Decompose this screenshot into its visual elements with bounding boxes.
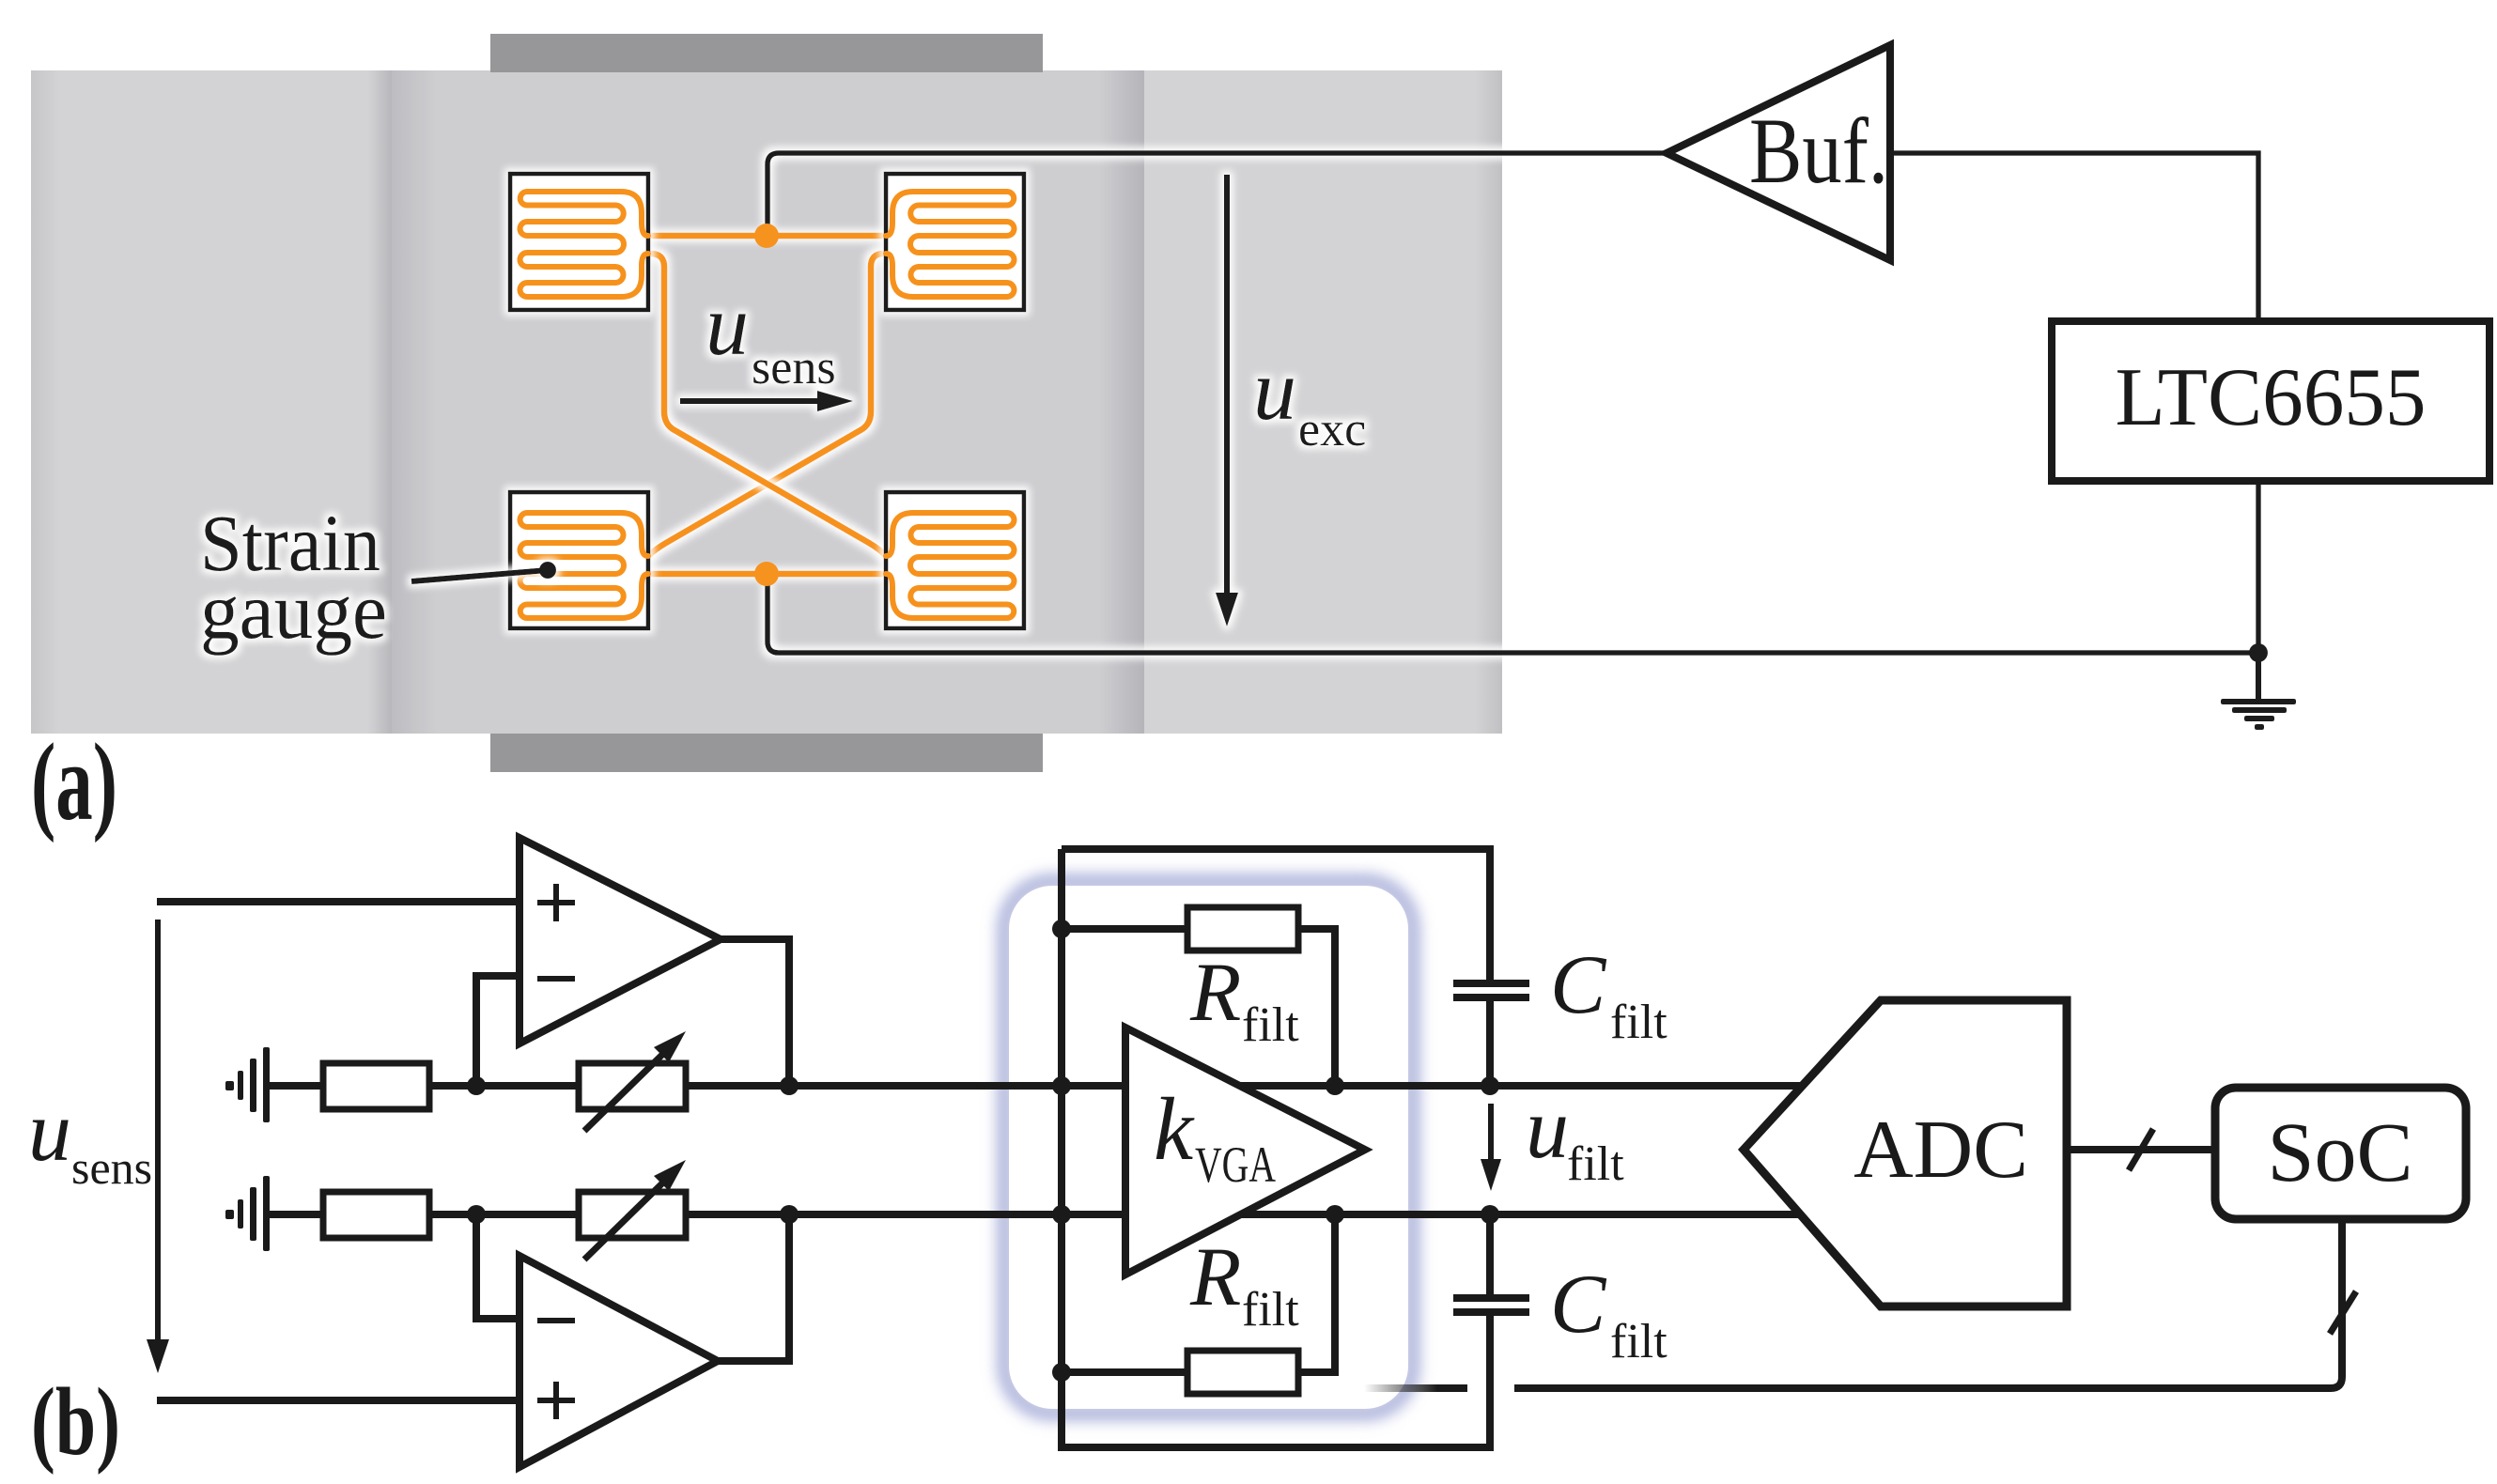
- ground (rail 2 bias): [225, 1176, 270, 1251]
- svg-text:SoC: SoC: [2267, 1106, 2412, 1199]
- wire R_filt top connections: [1062, 929, 1335, 1086]
- svg-text:filt: filt: [1242, 1283, 1299, 1337]
- pin + of op-amp U6: [537, 884, 575, 921]
- svg-text:Buf.: Buf.: [1749, 99, 1888, 203]
- junction at R_filt top left tap: [1052, 920, 1071, 938]
- svg-text:R: R: [1189, 1231, 1241, 1323]
- svg-text:k: k: [1154, 1079, 1195, 1179]
- ADC converter U3: [1744, 1000, 2067, 1306]
- wire top junction to Buf: [768, 153, 1667, 236]
- beam body: [31, 70, 1502, 734]
- filter loop outer rectangle: [1062, 849, 1490, 982]
- wire R_filt bottom connections: [1062, 1214, 1335, 1372]
- junction on rail 2 at C_filt: [1481, 1205, 1499, 1224]
- bridge wiring (orange, with white halo): [648, 236, 886, 574]
- wire cross NW-SE (over): [648, 254, 886, 556]
- wire SoC to VGA gain control: [1514, 1219, 2342, 1388]
- beam right edge shade: [1475, 70, 1502, 734]
- VGA highlight box: [1005, 882, 1412, 1413]
- op-amp U6 (non-inverting buffer, top): [520, 838, 721, 1043]
- junction on rail 1 at filter loop left: [1052, 1076, 1071, 1095]
- adjustment arrow of VR2: [584, 1177, 669, 1260]
- wire ADC to SoC (digital bus): [2067, 1146, 2215, 1153]
- wire u_sens+ input to op-amp 1: [157, 898, 523, 905]
- junction on rail 1 at op-amp 1 output: [780, 1076, 799, 1095]
- svg-text:gauge: gauge: [200, 565, 387, 656]
- variable resistor VR2: [579, 1192, 686, 1238]
- beam seam 1: [368, 70, 392, 734]
- voltage reference U5 LTC6655: [2052, 321, 2489, 481]
- svg-text:R: R: [1189, 947, 1241, 1039]
- svg-text:(b): (b): [31, 1368, 120, 1476]
- wire u_sens- input to op-amp 2: [157, 1397, 523, 1404]
- strain gauge top-right: [886, 174, 1024, 310]
- u_filt arrow: [1488, 1104, 1494, 1163]
- svg-text:u: u: [706, 277, 749, 373]
- svg-text:C: C: [1550, 939, 1607, 1031]
- svg-text:filt: filt: [1610, 996, 1667, 1049]
- svg-text:sens: sens: [71, 1141, 152, 1194]
- resistor R_filt bottom: [1187, 1351, 1298, 1394]
- pointer line to strain gauge R3: [411, 570, 548, 581]
- wire Buf output to LTC6655: [1890, 153, 2258, 321]
- svg-text:filt: filt: [1610, 1315, 1667, 1368]
- strain gauge bottom-left: [510, 492, 648, 628]
- ground: [2256, 653, 2261, 699]
- rail 2 (anti-phase): [269, 1211, 1800, 1218]
- junction on rail 1 at C_filt: [1481, 1076, 1499, 1095]
- strain gauge bottom-right: [886, 492, 1024, 628]
- u_sens arrow (bridge): [680, 398, 819, 404]
- wire bridge bottom rail: [648, 571, 886, 578]
- wire bridge top rail: [648, 233, 886, 240]
- output op-amp 1: [721, 939, 789, 1086]
- pin - of op-amp U7: [537, 1318, 575, 1323]
- svg-text:filt: filt: [1567, 1137, 1624, 1191]
- variable resistor VR1: [579, 1063, 686, 1109]
- op-amp U7 (non-inverting buffer, bottom): [520, 1256, 718, 1467]
- svg-text:VGA: VGA: [1195, 1136, 1276, 1193]
- beam seam 2: [1099, 70, 1144, 734]
- node bridge bottom: [754, 562, 779, 586]
- junction on rail 1 at R_filt right: [1326, 1076, 1344, 1095]
- svg-text:u: u: [1526, 1080, 1569, 1176]
- wire cross NE-SW (under): [648, 254, 886, 556]
- svg-text:ADC: ADC: [1853, 1105, 2028, 1196]
- SoC U4: [2215, 1088, 2466, 1219]
- svg-text:u: u: [1253, 342, 1296, 438]
- resistor R1: [323, 1063, 429, 1109]
- adjustment arrow of VR1: [584, 1048, 669, 1131]
- feedback op-amp 1: [476, 976, 520, 1086]
- bus slash on SoC gain-control wire: [2330, 1291, 2356, 1334]
- svg-text:C: C: [1550, 1259, 1607, 1351]
- resistor R2: [323, 1192, 429, 1238]
- node at LTC output: [2249, 643, 2268, 662]
- beam middle section tint: [392, 70, 1144, 734]
- capacitor C_filt top (plates): [1453, 980, 1529, 987]
- clamp bar bottom: [490, 734, 1043, 772]
- resistor R_filt top: [1187, 907, 1298, 951]
- svg-text:(a): (a): [31, 720, 117, 843]
- ground (rail 1 bias): [225, 1047, 270, 1122]
- excitation wiring (black, with white halo): [768, 153, 2296, 730]
- rail 1 (in-phase): [269, 1082, 1802, 1090]
- strain gauges: [510, 174, 1024, 628]
- u_exc arrow: [1224, 175, 1230, 595]
- u_sens arrow (input): [155, 920, 161, 1341]
- VGA amplifier U2: [1125, 1028, 1365, 1275]
- svg-text:u: u: [28, 1083, 71, 1179]
- svg-text:filt: filt: [1242, 998, 1299, 1052]
- bus slash on ADC-SoC wire: [2129, 1129, 2153, 1170]
- svg-text:sens: sens: [752, 341, 836, 394]
- svg-text:exc: exc: [1298, 403, 1366, 456]
- pin - of op-amp U6: [537, 976, 575, 982]
- feedback op-amp 2: [476, 1214, 520, 1319]
- junction on rail 2 at R_filt right: [1326, 1205, 1344, 1224]
- junction at R_filt bottom left tap: [1052, 1363, 1071, 1382]
- svg-text:LTC6655: LTC6655: [2116, 352, 2427, 443]
- pin + of op-amp U7: [537, 1382, 575, 1419]
- buffer amplifier U1 Buf.: [1667, 45, 1890, 260]
- junction on rail 1 at feedback tap: [467, 1076, 486, 1095]
- beam left edge shade: [31, 70, 59, 734]
- junction on rail 2 at feedback tap: [467, 1205, 486, 1224]
- junction on rail 2 at op-amp 2 output: [780, 1205, 799, 1224]
- wire gain control stub into VGA box: [1364, 1384, 1467, 1392]
- wire LTC6655 to ground node: [2256, 481, 2261, 653]
- output op-amp 2: [718, 1214, 789, 1361]
- capacitor C_filt bottom (plates): [1453, 1294, 1529, 1302]
- junction on rail 2 at filter loop left: [1052, 1205, 1071, 1224]
- clamp bar top: [490, 34, 1043, 72]
- wire bottom junction to ground node: [768, 574, 2258, 653]
- strain gauge top-left: [510, 174, 648, 310]
- node bridge top: [754, 224, 779, 248]
